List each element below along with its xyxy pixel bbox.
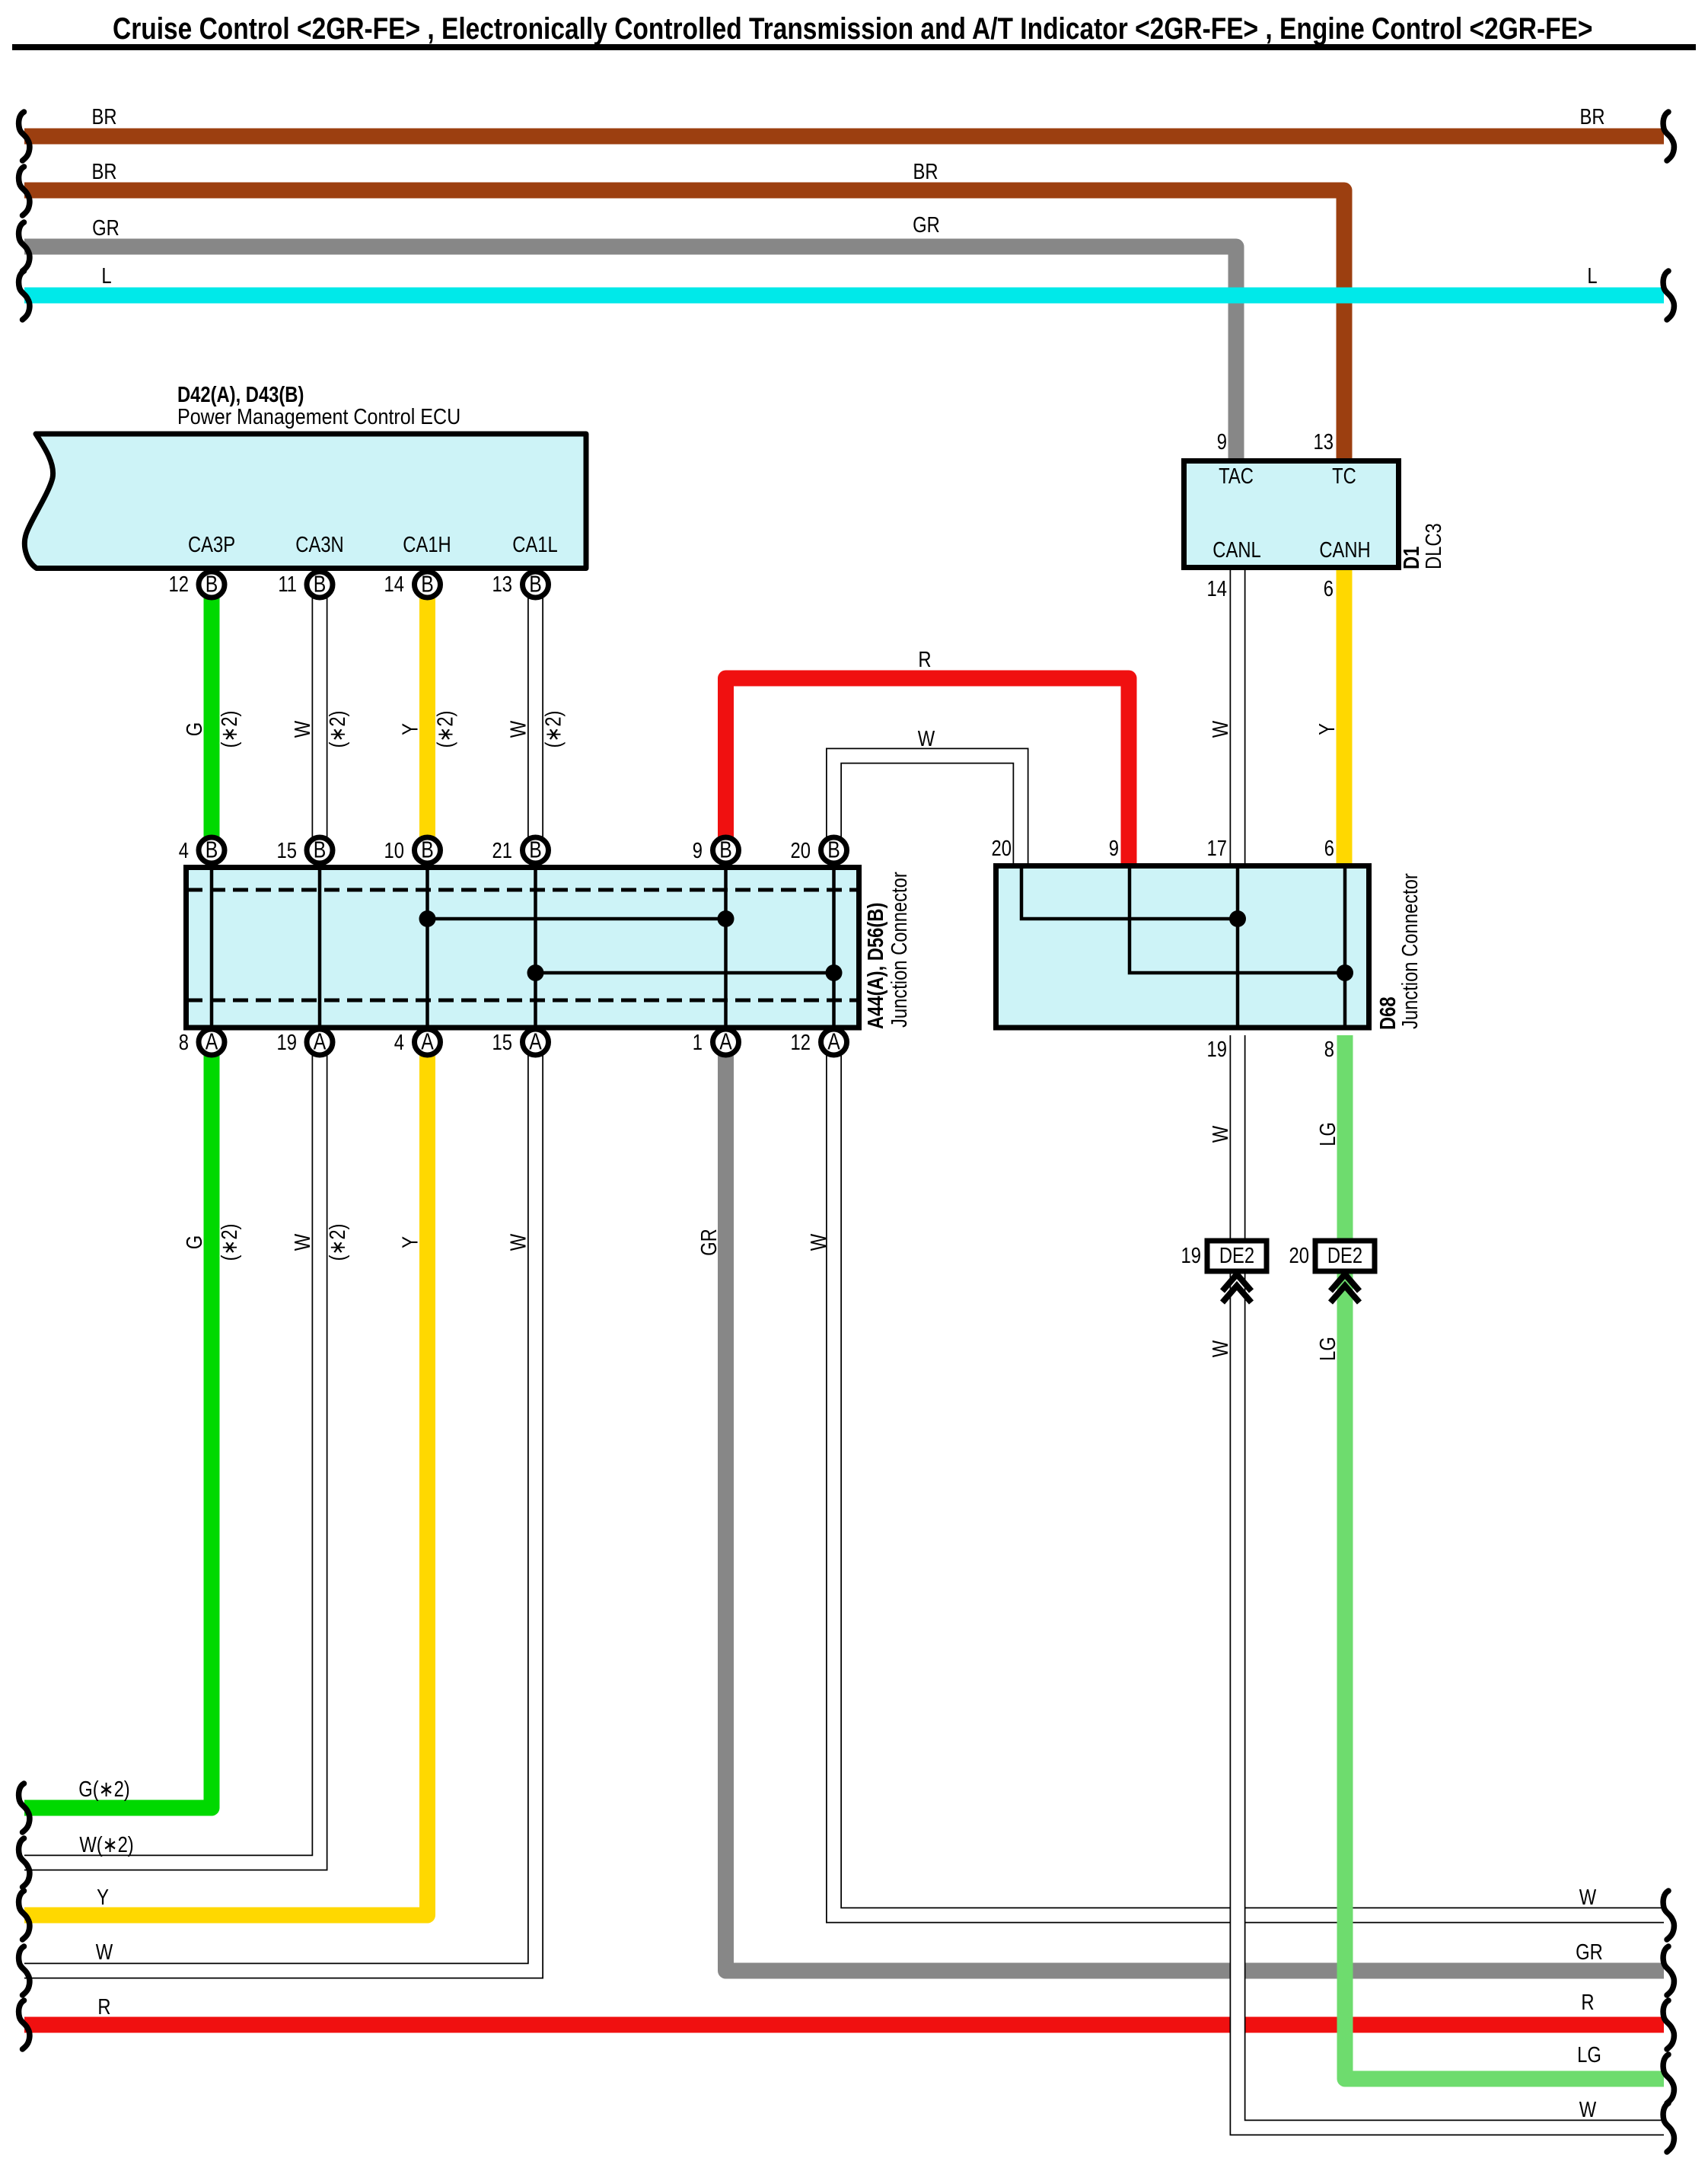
svg-text:BR: BR [91,104,116,129]
svg-text:9: 9 [693,838,703,863]
svg-text:(∗2): (∗2) [325,711,350,748]
svg-text:B: B [529,571,542,597]
svg-text:14: 14 [1207,576,1227,601]
svg-text:DE2: DE2 [1219,1243,1254,1268]
svg-text:B: B [206,837,218,862]
svg-text:Y: Y [397,723,422,735]
svg-text:20: 20 [1289,1243,1309,1268]
svg-text:19: 19 [1207,1037,1227,1062]
svg-text:W: W [505,721,531,738]
svg-text:Junction Connector: Junction Connector [887,872,912,1028]
svg-text:1: 1 [693,1030,703,1055]
svg-text:B: B [314,837,327,862]
svg-text:(∗2): (∗2) [432,711,457,748]
svg-text:R: R [918,647,931,672]
svg-text:A: A [421,1028,434,1054]
svg-text:CANH: CANH [1319,537,1370,563]
svg-text:W: W [290,1234,315,1251]
svg-text:GR: GR [913,212,940,237]
svg-text:(∗2): (∗2) [540,711,566,748]
svg-text:LG: LG [1315,1337,1340,1361]
svg-text:W: W [806,1234,831,1251]
svg-text:BR: BR [91,159,116,184]
svg-text:G: G [182,722,207,736]
svg-text:LG: LG [1577,2042,1601,2067]
svg-text:D68: D68 [1375,996,1400,1030]
svg-text:W: W [918,726,935,751]
svg-text:A: A [827,1028,840,1054]
svg-text:CA3P: CA3P [188,532,235,557]
svg-text:L: L [101,263,111,288]
svg-text:W: W [505,1234,531,1251]
svg-text:14: 14 [384,572,404,597]
svg-text:9: 9 [1109,836,1119,861]
svg-text:W: W [1579,1885,1596,1910]
svg-text:Y: Y [397,1236,422,1248]
svg-text:10: 10 [384,838,404,863]
svg-text:4: 4 [179,838,189,863]
svg-text:(∗2): (∗2) [217,1224,242,1261]
svg-text:9: 9 [1217,429,1227,454]
svg-text:D1: D1 [1399,547,1424,569]
svg-text:Power Management Control ECU: Power Management Control ECU [177,403,460,429]
svg-text:G(∗2): G(∗2) [78,1777,129,1802]
svg-text:W(∗2): W(∗2) [79,1832,133,1857]
svg-text:DE2: DE2 [1327,1243,1362,1268]
svg-text:6: 6 [1324,576,1334,601]
svg-text:21: 21 [492,838,512,863]
svg-text:GR: GR [696,1229,722,1256]
svg-text:GR: GR [1576,1940,1603,1965]
svg-text:LG: LG [1315,1122,1340,1146]
svg-text:12: 12 [169,572,189,597]
svg-text:B: B [206,571,218,597]
svg-text:CA1L: CA1L [512,532,557,557]
svg-text:6: 6 [1324,836,1334,861]
svg-text:G: G [182,1235,207,1249]
svg-text:(∗2): (∗2) [325,1224,350,1261]
svg-text:W: W [1208,721,1233,738]
svg-text:17: 17 [1207,836,1227,861]
svg-text:R: R [1581,1990,1594,2015]
svg-text:A: A [206,1028,218,1054]
svg-text:13: 13 [492,572,512,597]
svg-text:CA1H: CA1H [403,532,451,557]
svg-text:8: 8 [1324,1037,1334,1062]
svg-text:DLC3: DLC3 [1421,523,1446,569]
svg-text:W: W [1208,1340,1233,1357]
svg-text:15: 15 [492,1030,512,1055]
svg-text:20: 20 [992,836,1012,861]
svg-text:Cruise Control <2GR-FE> , Elec: Cruise Control <2GR-FE> , Electronically… [113,11,1593,45]
svg-text:Junction Connector: Junction Connector [1397,873,1423,1029]
svg-text:GR: GR [92,215,119,241]
svg-text:A44(A), D56(B): A44(A), D56(B) [863,903,888,1029]
svg-text:15: 15 [277,838,297,863]
svg-text:BR: BR [1579,104,1604,129]
svg-text:B: B [421,571,434,597]
svg-text:Y: Y [1314,723,1340,735]
svg-text:11: 11 [278,572,297,597]
svg-text:4: 4 [394,1030,404,1055]
svg-text:CA3N: CA3N [295,532,343,557]
svg-text:A: A [314,1028,327,1054]
svg-text:R: R [97,1994,110,2019]
svg-text:B: B [529,837,542,862]
svg-text:(∗2): (∗2) [217,711,242,748]
svg-text:B: B [421,837,434,862]
svg-text:A: A [529,1028,542,1054]
svg-text:B: B [719,837,732,862]
svg-text:TC: TC [1332,464,1356,489]
svg-text:BR: BR [913,159,938,184]
svg-text:W: W [290,721,315,738]
svg-text:20: 20 [791,838,811,863]
svg-text:CANL: CANL [1212,537,1260,563]
svg-text:12: 12 [791,1030,811,1055]
svg-text:B: B [827,837,840,862]
svg-text:L: L [1587,263,1597,288]
svg-text:A: A [719,1028,732,1054]
svg-text:W: W [96,1940,113,1965]
svg-text:19: 19 [1181,1243,1201,1268]
svg-text:W: W [1208,1126,1233,1143]
svg-text:B: B [314,571,327,597]
svg-text:19: 19 [277,1030,297,1055]
svg-text:W: W [1579,2097,1596,2122]
svg-text:Y: Y [97,1885,109,1910]
svg-text:8: 8 [179,1030,189,1055]
svg-text:TAC: TAC [1219,464,1254,489]
svg-text:13: 13 [1314,429,1334,454]
